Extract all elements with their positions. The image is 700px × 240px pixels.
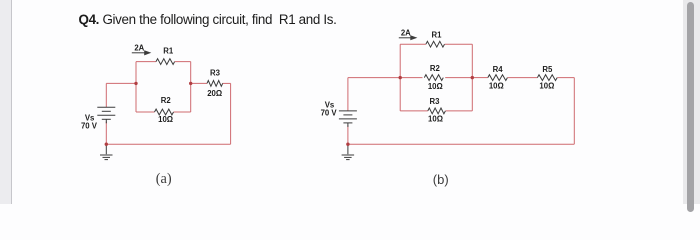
svg-text:10Ω: 10Ω: [428, 82, 443, 91]
svg-text:10Ω: 10Ω: [539, 82, 554, 91]
svg-text:10Ω: 10Ω: [428, 115, 443, 124]
svg-text:70 V: 70 V: [81, 122, 98, 131]
svg-text:70 V: 70 V: [321, 109, 338, 118]
svg-text:20Ω: 20Ω: [207, 89, 222, 98]
svg-text:R3: R3: [210, 69, 221, 78]
svg-text:2A: 2A: [401, 29, 411, 38]
svg-text:R5: R5: [542, 65, 553, 74]
svg-text:R3: R3: [430, 97, 441, 106]
svg-text:10Ω: 10Ω: [489, 82, 504, 91]
svg-text:R1: R1: [163, 47, 174, 56]
svg-text:R4: R4: [493, 65, 504, 74]
svg-text:R2: R2: [161, 96, 172, 105]
svg-text:R1: R1: [432, 30, 443, 39]
svg-text:10Ω: 10Ω: [158, 115, 173, 124]
svg-text:2A: 2A: [134, 44, 144, 53]
svg-text:R2: R2: [430, 64, 441, 73]
